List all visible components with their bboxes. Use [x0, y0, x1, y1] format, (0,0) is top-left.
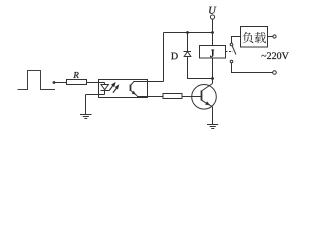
- relay coil J box: [200, 46, 226, 59]
- light arrow 2: [113, 86, 118, 93]
- optocoupler U1 box: [99, 80, 148, 98]
- phototransistor collector: [131, 82, 164, 86]
- phototransistor emitter: [131, 90, 138, 96]
- wire contact upper to load: [232, 37, 241, 44]
- wire input to R: [54, 82, 67, 84]
- ground right: [207, 125, 218, 129]
- contact upper circle: [230, 43, 233, 46]
- transistor Q1 circle: [192, 85, 217, 110]
- terminal upper right: [273, 35, 276, 38]
- transistor base bar: [201, 91, 203, 101]
- LED triangle: [101, 85, 109, 90]
- label load 载: [255, 32, 266, 43]
- ground left: [80, 115, 92, 119]
- contact lower circle: [230, 60, 233, 63]
- input node dot: [53, 81, 56, 84]
- light arrow 1: [109, 84, 114, 91]
- LED cathode stub: [104, 91, 106, 95]
- wire contact lower to terminal: [232, 63, 273, 73]
- wire opto emitter to base resistor: [137, 96, 163, 98]
- top rail: [164, 32, 213, 34]
- label U: [209, 7, 216, 14]
- wire load to terminal: [268, 36, 273, 38]
- LED anode stub: [104, 83, 106, 85]
- emitter wire down: [212, 107, 214, 125]
- terminal lower right: [273, 71, 277, 75]
- resistor R: [67, 80, 87, 85]
- base resistor: [163, 94, 182, 99]
- transistor collector slant: [202, 84, 213, 92]
- load box: [241, 27, 268, 48]
- pulse input waveform: [18, 71, 56, 90]
- label R: [73, 72, 78, 78]
- diode D cathode bar: [184, 51, 192, 53]
- node diode-relay junction: [211, 77, 214, 80]
- diode bottom L wire: [188, 57, 213, 79]
- LED cathode bar: [101, 90, 110, 92]
- wire rail to relay top: [212, 33, 214, 46]
- diode D top wire: [187, 33, 189, 52]
- wire U terminal to rail: [212, 19, 214, 32]
- wire base resistor to transistor: [182, 96, 202, 98]
- transistor emitter slant: [202, 100, 213, 107]
- label load 负: [242, 32, 253, 43]
- terminal U: [210, 15, 214, 19]
- collector riser to top rail: [163, 33, 165, 82]
- node at U junction: [211, 31, 214, 34]
- contact arm: [232, 46, 236, 55]
- label ~220V: [261, 52, 288, 59]
- wire relay bottom to collector: [212, 58, 214, 84]
- diode D triangle: [184, 52, 191, 57]
- relay contact dashed link: [226, 51, 234, 53]
- label D: [171, 53, 178, 60]
- LED cathode exit wire: [86, 94, 105, 96]
- wire R to optocoupler LED anode: [87, 82, 105, 84]
- ground riser left: [85, 95, 87, 115]
- phototransistor bar: [130, 85, 132, 92]
- label J: [210, 50, 214, 57]
- node at diode top: [186, 31, 189, 34]
